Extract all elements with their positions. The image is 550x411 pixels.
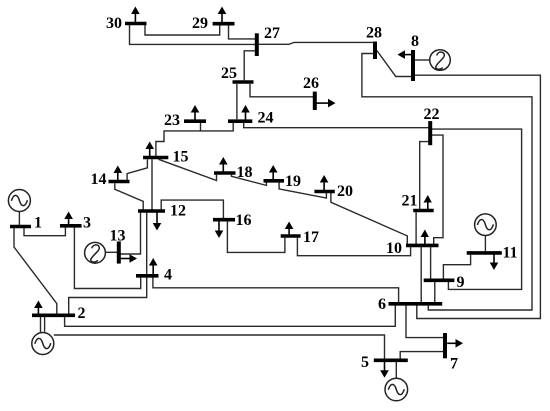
wire 6-9: [434, 282, 436, 302]
svg-text:6: 6: [378, 296, 386, 313]
svg-text:4: 4: [164, 267, 172, 284]
bus 5: [374, 358, 408, 362]
wire 15-23: [156, 123, 201, 158]
wire 29-30: [145, 24, 220, 36]
svg-text:17: 17: [303, 229, 319, 246]
svg-text:26: 26: [303, 75, 319, 92]
load arrow 8 (left): [398, 50, 412, 59]
load arrow 12 (down): [153, 211, 162, 231]
svg-text:22: 22: [424, 106, 440, 123]
svg-text:19: 19: [285, 173, 301, 190]
load arrow 26 (right): [317, 99, 336, 108]
svg-text:24: 24: [258, 110, 274, 127]
bus 27: [255, 33, 259, 56]
wire 9-10: [430, 247, 432, 279]
wire generator13 lead: [105, 251, 117, 253]
bus 4: [136, 274, 159, 278]
load arrow 20: [320, 175, 329, 192]
svg-text:29: 29: [192, 15, 208, 32]
bus 16: [213, 218, 235, 222]
wire 3-4: [74, 227, 140, 288]
generator G13: [85, 242, 106, 263]
load arrow 17: [285, 222, 294, 237]
generator G11: [475, 214, 497, 236]
bus 6: [389, 302, 443, 306]
wire 6-8: [415, 75, 541, 318]
bus 22: [428, 121, 432, 145]
bus 13: [117, 241, 121, 263]
wire 27-30: [130, 24, 256, 45]
svg-text:8: 8: [411, 33, 419, 50]
svg-text:7: 7: [450, 356, 458, 373]
wire generator2 lead: [40, 317, 42, 333]
bus 25: [233, 80, 254, 84]
load arrow 13 (right): [121, 254, 138, 263]
bus 28: [373, 42, 377, 60]
load arrow 11 (down): [490, 253, 499, 270]
bus 14: [109, 180, 130, 184]
wire 12-13: [120, 213, 140, 254]
wire 18-19 diagonal: [232, 175, 267, 186]
svg-text:16: 16: [236, 212, 252, 229]
svg-text:13: 13: [110, 228, 126, 245]
bus 26: [313, 92, 317, 110]
wire 25-27: [244, 51, 255, 81]
bus 10: [406, 244, 439, 248]
bus 11: [467, 251, 502, 255]
bus 20: [314, 190, 334, 194]
svg-text:28: 28: [366, 25, 382, 42]
wire 12-16: [161, 200, 223, 218]
wire 12-14: [115, 183, 143, 209]
svg-text:1: 1: [34, 215, 42, 232]
bus 21: [413, 209, 434, 213]
wire generator11 lead: [484, 236, 486, 252]
generator G2: [32, 333, 54, 355]
wire 14-15: [127, 159, 147, 180]
svg-text:3: 3: [83, 215, 91, 232]
load arrow 29: [218, 7, 227, 24]
wire 10-22: [432, 135, 443, 244]
load arrow 19: [269, 165, 278, 181]
bus 8: [411, 50, 415, 81]
svg-text:11: 11: [503, 245, 518, 262]
wire 10-20 diagonal: [331, 192, 407, 244]
wire 5-7: [400, 352, 443, 359]
svg-text:18: 18: [237, 164, 253, 181]
svg-text:15: 15: [173, 149, 189, 166]
wire 27-29: [229, 24, 256, 39]
svg-text:2: 2: [78, 305, 86, 322]
wire 2-6: [65, 306, 396, 327]
load arrow 18: [219, 157, 228, 173]
wire 27-28: [259, 42, 374, 44]
bus 9: [424, 278, 455, 282]
svg-text:14: 14: [91, 171, 107, 188]
generator G1: [8, 190, 30, 212]
wire 4-12: [146, 213, 148, 275]
bus 12: [138, 209, 165, 213]
bus 3: [60, 224, 82, 228]
wire generator5 lead: [395, 362, 397, 378]
generator G8: [430, 50, 451, 71]
svg-text:20: 20: [337, 183, 353, 200]
wire 10-21: [415, 212, 417, 244]
bus 23: [184, 119, 206, 123]
wire 9-22: [432, 129, 522, 289]
load arrow 4: [149, 258, 158, 276]
wire 21-22: [420, 142, 429, 210]
load arrow 30: [131, 7, 140, 24]
generator G5: [385, 378, 408, 401]
wire 1-3: [24, 227, 65, 236]
bus 19: [264, 179, 285, 183]
load arrow 3: [64, 212, 73, 226]
wire 6-28: [362, 54, 532, 311]
wire 9-11: [443, 255, 470, 279]
svg-text:12: 12: [170, 203, 186, 220]
load arrow 23: [191, 105, 200, 121]
svg-text:21: 21: [402, 193, 418, 210]
svg-text:27: 27: [264, 25, 280, 42]
wire 15-18 diagonal: [159, 159, 217, 180]
load arrow 5 (down): [380, 360, 389, 378]
bus 7: [443, 333, 447, 358]
bus 17: [281, 234, 301, 238]
wire generator1 lead: [18, 212, 20, 225]
load arrow 21: [424, 195, 432, 211]
bus 24: [228, 119, 252, 123]
wire 4-6: [153, 277, 399, 302]
bus 15: [143, 156, 168, 160]
wire 10-17: [297, 238, 410, 256]
svg-text:30: 30: [106, 15, 122, 32]
bus 18: [214, 171, 236, 175]
wire 2-5: [45, 317, 385, 359]
wire 23-24: [201, 123, 234, 131]
wire 25-26: [250, 84, 313, 97]
load arrow 14: [114, 166, 123, 182]
wire 1-2: [14, 228, 57, 314]
wire 16-17: [227, 221, 285, 252]
wire 22-24: [244, 123, 429, 128]
wire 12-15: [151, 159, 153, 209]
load arrow 15: [145, 142, 154, 158]
load arrow 16 (down): [215, 220, 224, 238]
wire 6-7: [406, 306, 443, 338]
bus 29: [213, 22, 235, 26]
svg-text:25: 25: [221, 65, 237, 82]
load arrow 7 (right): [447, 339, 463, 348]
load arrow 24: [241, 105, 250, 121]
wire 8-28: [377, 51, 412, 77]
wire 2-4: [69, 277, 147, 313]
load arrow 2: [34, 301, 43, 316]
svg-text:23: 23: [164, 112, 180, 129]
wire 19-20 diagonal: [279, 182, 326, 198]
bus 2: [32, 313, 75, 317]
bus 1: [10, 225, 31, 229]
wire 24-25: [236, 84, 238, 120]
load arrow 10: [421, 230, 429, 246]
wire 6-10: [420, 247, 422, 302]
svg-text:10: 10: [386, 240, 402, 257]
wire generator8 lead: [415, 59, 430, 61]
svg-text:5: 5: [361, 354, 369, 371]
svg-text:9: 9: [457, 274, 465, 291]
bus 30: [125, 22, 147, 26]
